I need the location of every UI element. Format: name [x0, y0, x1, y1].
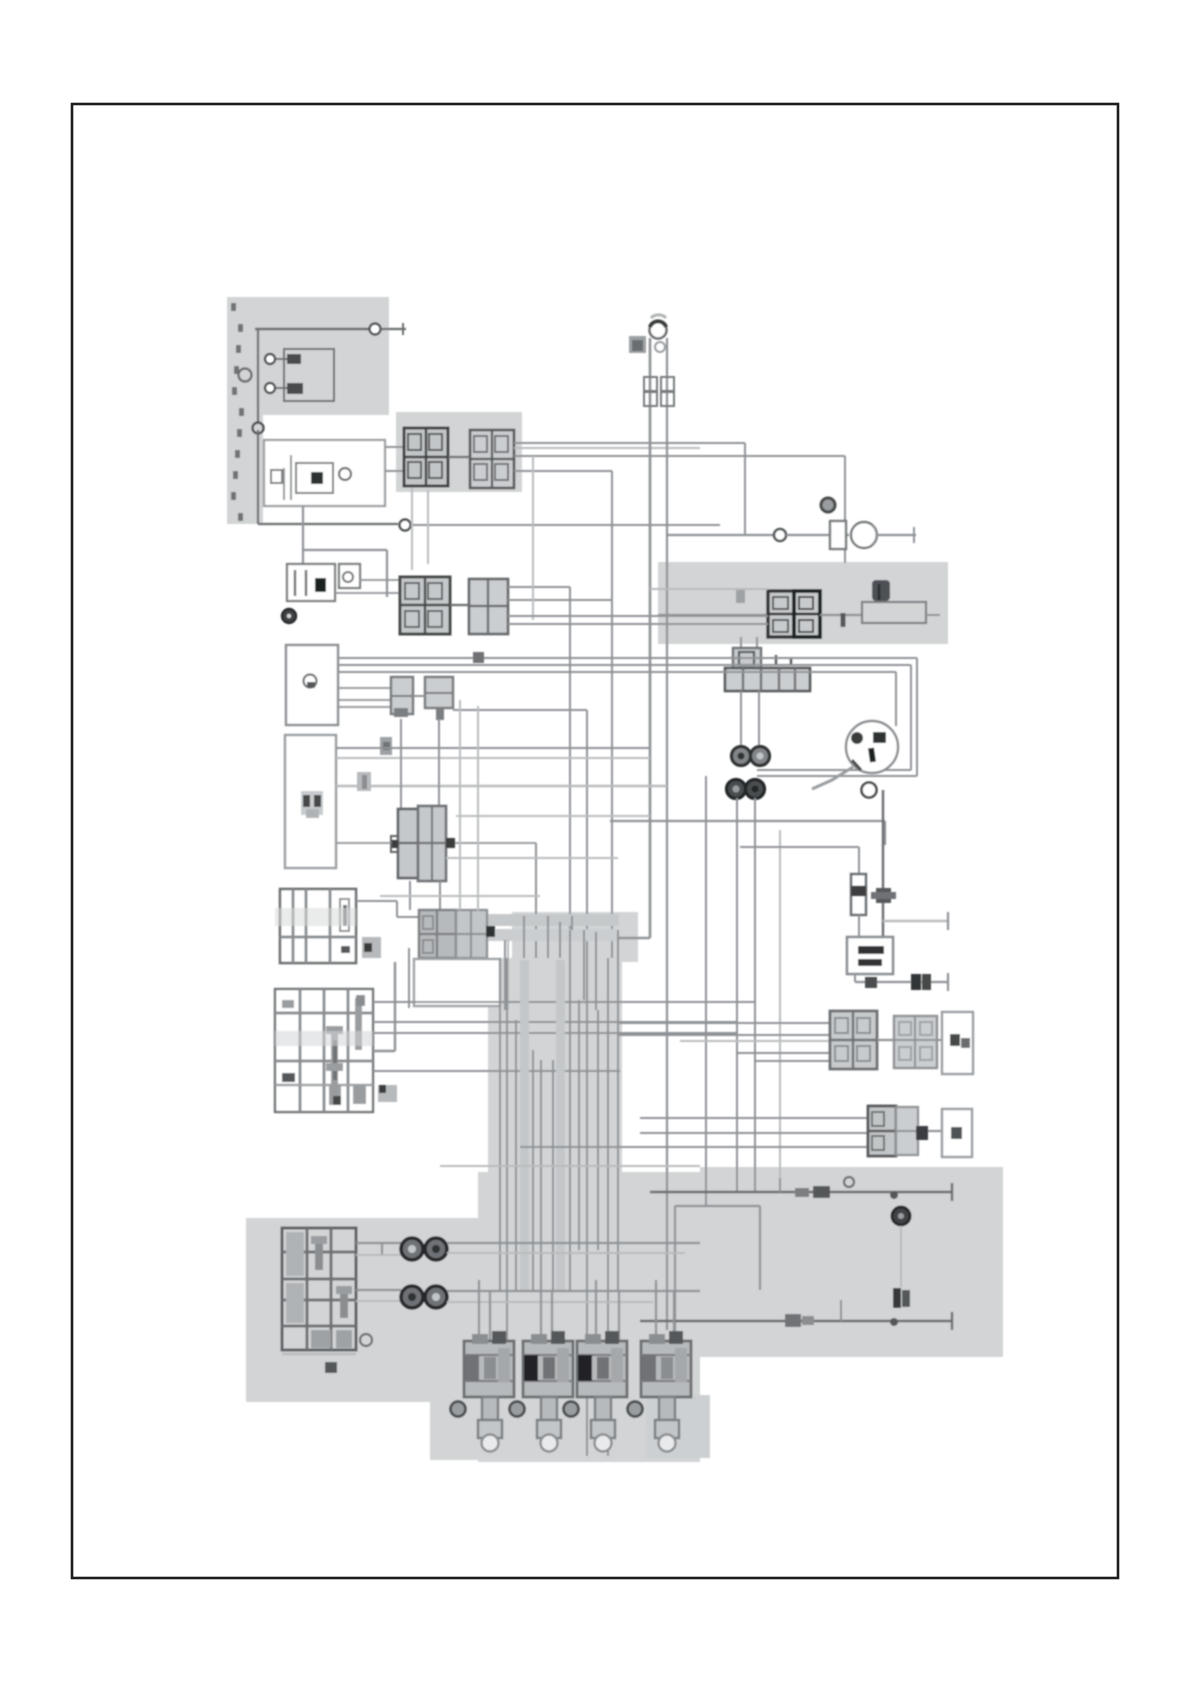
wire [883, 912, 948, 930]
wire [448, 456, 470, 458]
coupler block [456, 910, 487, 958]
wire [373, 1032, 737, 1034]
wire [447, 1301, 653, 1303]
terminal ring [400, 520, 411, 531]
rectifier element [296, 463, 333, 493]
wire [610, 821, 885, 845]
wire [658, 614, 768, 616]
contact [282, 1000, 294, 1008]
contact [916, 1126, 928, 1140]
wire [380, 895, 540, 897]
spark plug 4 [655, 1397, 679, 1452]
terminal ring [862, 783, 877, 798]
rectifier connector [942, 1109, 972, 1157]
wire [440, 1165, 700, 1167]
terminal ring [564, 1402, 579, 1417]
wire [408, 948, 410, 1008]
rectifier coupler block [868, 1106, 896, 1156]
wire [532, 456, 534, 620]
terminal ring [655, 342, 665, 352]
junction [890, 1191, 898, 1199]
connector half [794, 591, 820, 637]
band tick [736, 588, 745, 603]
bullet connector [357, 772, 371, 791]
harness shading [275, 1031, 373, 1046]
wire [446, 857, 618, 859]
main fuse ring [650, 315, 667, 339]
wire [413, 695, 425, 697]
wire [656, 1280, 674, 1341]
harness wires upper [460, 700, 622, 1010]
wire [410, 881, 440, 910]
coupler block [418, 806, 455, 881]
wire [412, 488, 428, 570]
coupler block [391, 809, 418, 878]
wire [812, 767, 853, 789]
connector [629, 336, 646, 353]
relay unit box [286, 645, 338, 725]
contact [865, 977, 877, 988]
wire [356, 901, 419, 917]
wire [257, 329, 259, 424]
wire [456, 815, 650, 817]
wire [675, 1206, 760, 1345]
dimmer connector block [391, 677, 413, 717]
bullet connector [661, 377, 674, 406]
cross connector [378, 1085, 397, 1102]
terminal ring [821, 498, 835, 512]
dimmer connector block [425, 677, 453, 720]
contact [356, 995, 365, 1006]
wire [447, 1252, 685, 1254]
bottom connector grid [282, 1228, 356, 1350]
wire [508, 587, 570, 958]
terminal ring [370, 324, 381, 335]
wire [373, 1001, 755, 1003]
slot bar [311, 1236, 327, 1270]
slot bar [326, 1026, 343, 1103]
terminal ring [360, 1334, 372, 1346]
junction [871, 888, 896, 903]
handlebar switch grid [275, 989, 373, 1112]
wire [338, 688, 391, 707]
cross connector [362, 937, 381, 958]
wire [877, 1039, 894, 1041]
connector half [768, 591, 794, 637]
main coupler block [404, 428, 448, 486]
wire [508, 599, 612, 601]
wire [258, 430, 398, 524]
contact [325, 1362, 337, 1373]
wire [401, 719, 439, 809]
ignitor connector grid [280, 889, 356, 963]
wire [356, 1243, 401, 1255]
spark plug 2 [537, 1397, 561, 1452]
wire [336, 785, 667, 787]
wire [373, 1021, 737, 1023]
contact [329, 1085, 341, 1105]
wire [282, 1353, 356, 1355]
junction [890, 1318, 898, 1326]
CDI coupler block [894, 1016, 937, 1068]
wire [381, 323, 406, 335]
wire [786, 534, 849, 536]
contact [271, 470, 282, 483]
wire [447, 1290, 700, 1292]
wire [373, 962, 395, 1051]
bullet connector pair [401, 1286, 447, 1308]
harness [419, 914, 619, 941]
wire [508, 623, 768, 625]
wire [882, 790, 884, 937]
wire [495, 338, 650, 938]
bullet connector pair [401, 1238, 447, 1260]
wire [900, 1226, 902, 1287]
wire [514, 447, 700, 449]
terminal ring [628, 1402, 643, 1417]
slot bar [336, 1286, 352, 1318]
harness shading [275, 908, 356, 926]
wire [514, 471, 612, 958]
wire [820, 614, 862, 616]
wire [373, 1070, 620, 1072]
junction [473, 652, 484, 663]
relay box [414, 959, 500, 1006]
contact [276, 354, 301, 364]
terminal ring [253, 423, 264, 434]
terminal ring [892, 1207, 910, 1225]
wire [928, 1130, 942, 1132]
slot bar [355, 998, 362, 1050]
wire [650, 588, 768, 590]
wire [453, 710, 587, 1456]
ground connector [893, 1288, 910, 1308]
wire [541, 1280, 552, 1341]
terminal ring [265, 354, 275, 364]
wire [705, 776, 707, 1206]
wire [335, 580, 400, 593]
wire [356, 1290, 401, 1301]
wire [737, 798, 755, 1192]
coupler block [419, 910, 456, 958]
terminal ring [239, 369, 252, 382]
contact [282, 1073, 295, 1082]
lighting coil box [284, 349, 334, 401]
wire [779, 1178, 781, 1192]
terminal ring [774, 529, 786, 541]
ignition switch [846, 721, 898, 773]
ignition coil 4 [641, 1331, 691, 1397]
wire [255, 328, 371, 330]
spark plug 1 [478, 1397, 502, 1452]
wire [840, 1300, 842, 1321]
wire [338, 672, 896, 726]
battery [847, 937, 893, 974]
CDI connector [942, 1012, 973, 1074]
rectifier coupler block [896, 1107, 918, 1155]
terminal ring [304, 675, 317, 689]
wire [741, 691, 759, 746]
contact [276, 383, 303, 394]
wire [447, 1242, 700, 1244]
flasher box [339, 564, 360, 588]
wire [385, 447, 404, 471]
ignition coil 3 [577, 1331, 627, 1397]
ground connector [911, 974, 931, 990]
wire [508, 615, 768, 617]
wire [640, 1312, 952, 1330]
ignition coil 2 [523, 1331, 573, 1397]
wire [937, 1039, 942, 1041]
wire [926, 614, 940, 616]
junction box [380, 737, 392, 755]
wire [303, 506, 387, 597]
wire [411, 524, 720, 526]
relay coupler block [469, 579, 508, 634]
fuse [851, 874, 866, 915]
wire [336, 757, 650, 759]
wire [338, 665, 911, 770]
contact [486, 926, 495, 937]
harness band [520, 960, 565, 1290]
terminal ring [844, 1177, 854, 1187]
wire [666, 338, 668, 1330]
bullet pair [732, 747, 770, 766]
wire [855, 973, 948, 991]
wire [858, 915, 860, 937]
wire [618, 1023, 830, 1061]
wire [336, 843, 536, 958]
terminal ring [451, 1402, 466, 1417]
terminal ring [282, 609, 296, 623]
wire [877, 527, 916, 543]
wire [514, 456, 845, 563]
spark plug 3 [591, 1397, 615, 1452]
wire [596, 1280, 619, 1341]
switch unit box [285, 735, 336, 868]
wire [450, 604, 469, 606]
wire [479, 1280, 490, 1341]
terminal ring [339, 468, 351, 480]
engine stop switch [843, 580, 926, 627]
wire [740, 847, 859, 874]
terminal ring [265, 383, 275, 393]
wire [650, 1183, 952, 1201]
cell shading [286, 1232, 352, 1348]
contact [795, 1186, 830, 1198]
switch connector [725, 655, 810, 691]
rectifier box [264, 440, 385, 506]
CDI coupler block [830, 1011, 877, 1069]
terminal ring [510, 1402, 525, 1417]
bullet pair [727, 780, 765, 799]
wire [667, 534, 774, 536]
flasher switch box [287, 564, 335, 601]
wire [505, 940, 508, 1010]
harness column wires [500, 930, 618, 1456]
scan speckles [231, 303, 244, 521]
wire [338, 658, 917, 776]
bullet connector [644, 377, 657, 406]
ignition coil 1 [464, 1331, 514, 1397]
wire [779, 830, 781, 1192]
wire [520, 1118, 868, 1147]
main coupler block [470, 430, 514, 488]
switch housing [733, 648, 761, 668]
wire [336, 747, 650, 749]
horn [830, 521, 877, 549]
wire [741, 637, 757, 648]
contact [353, 1085, 366, 1104]
wire [514, 443, 745, 535]
contact [785, 1314, 814, 1327]
relay coupler block [400, 577, 450, 634]
